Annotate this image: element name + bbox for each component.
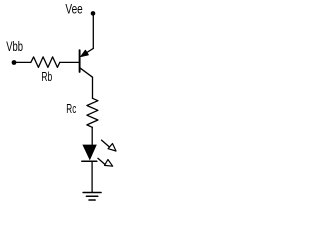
wire Vbb dot to Rb — [14, 61, 31, 63]
transistor Q1 base bar — [79, 50, 81, 72]
LED D1 triangle — [82, 145, 96, 161]
wire collector down — [92, 77, 94, 98]
resistor Rb — [31, 57, 60, 68]
wire Rc to LED — [91, 127, 93, 150]
LED emission arrow 1 — [102, 140, 110, 147]
wire Rb to base — [60, 61, 79, 63]
resistor Rc — [87, 98, 98, 127]
wire emitter to Vee — [92, 15, 94, 49]
transistor Q1 emitter with arrow (PNP) — [83, 48, 94, 55]
ground — [83, 192, 101, 194]
svg-text:Rc: Rc — [66, 101, 76, 116]
svg-text:Vee: Vee — [65, 1, 83, 17]
node Vbb terminal dot — [12, 60, 17, 65]
transistor Q1 collector — [80, 68, 92, 77]
svg-text:Rb: Rb — [41, 69, 52, 84]
LED emission arrow 2 — [98, 158, 105, 164]
node Vee terminal dot — [91, 11, 96, 16]
wire LED to ground — [91, 161, 93, 192]
svg-text:Vbb: Vbb — [6, 38, 23, 54]
LED D1 cathode bar — [82, 160, 97, 162]
